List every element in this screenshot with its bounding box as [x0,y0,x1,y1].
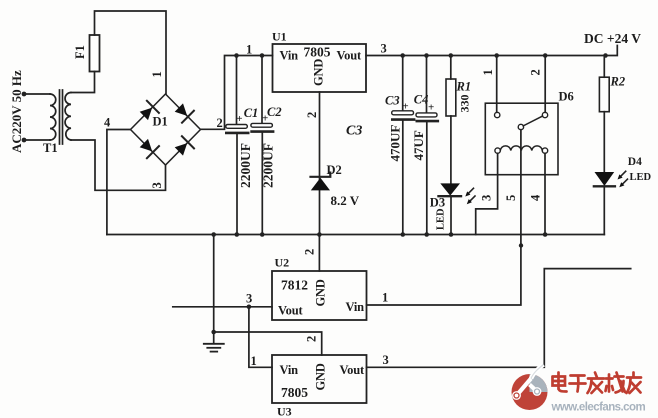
fuse F1 [90,35,100,72]
bridge diode bottom-right [175,143,188,156]
svg-text:470UF: 470UF [388,125,403,162]
wire relay pin 2 [544,56,546,113]
svg-text:D4: D4 [628,156,642,168]
svg-text:3: 3 [381,42,387,56]
svg-text:D3: D3 [430,196,445,210]
svg-text:GND: GND [314,363,328,390]
svg-text:LED: LED [436,208,447,230]
LED D3 arrows [468,188,473,193]
svg-text:2: 2 [305,336,319,342]
resistor R2 [603,56,605,78]
capacitor C2 [261,56,263,124]
svg-text:1: 1 [481,69,495,75]
svg-text:47UF: 47UF [411,130,426,160]
relay switch common contact [518,124,523,129]
wire relay pin 4 to rail [544,153,546,234]
wire bridge node 4 down to bottom rail [107,130,131,235]
svg-text:Vout: Vout [340,363,365,377]
svg-text:3: 3 [246,292,252,306]
svg-text:D1: D1 [153,115,168,129]
svg-text:F1: F1 [73,45,87,59]
svg-text:2: 2 [303,249,317,255]
svg-text:2200UF: 2200UF [238,143,253,188]
svg-text:U2: U2 [275,256,290,270]
LED D4 arrows [621,171,626,176]
wire AC bottom to primary [24,139,50,141]
node dot relay 2 [543,53,548,58]
relay coil terminals [495,148,500,153]
svg-text:DC +24 V: DC +24 V [584,31,641,46]
svg-text:D2: D2 [327,163,342,177]
wire U2 Vout to U3 Vin [249,307,272,368]
relay D6 box [485,103,558,175]
AC terminal dot bottom [22,138,27,143]
resistor R1 [450,56,452,80]
LED D3 [440,183,460,195]
op-amp U3 7805 regulator box [272,355,367,403]
wire U3 Vout pin 3 [367,269,631,368]
capacitor C4 [426,56,428,113]
wire bottom rail [107,234,604,236]
svg-text:3: 3 [480,195,494,201]
relay switch arm [523,116,542,126]
node dot relay 1 [494,53,499,58]
svg-text:T1: T1 [43,141,58,155]
svg-text:Vout: Vout [337,49,362,63]
AC terminal dot top [22,92,27,97]
wire U1 GND pin 2 down to rail [319,92,321,235]
op-amp U1 7805 regulator box [273,44,367,92]
node dot C2 top [260,53,265,58]
transformer T1 secondary winding [65,93,71,141]
svg-text:GND: GND [314,279,328,306]
svg-text:Vin: Vin [346,300,365,314]
svg-text:3: 3 [383,353,389,367]
svg-text:330: 330 [458,95,472,113]
capacitor C3 [402,56,404,111]
capacitor C1 [236,56,238,125]
watermark text 电子发烧友 [553,373,642,394]
svg-text:4: 4 [104,116,111,130]
svg-text:C3: C3 [385,94,400,108]
wire secondary top to fuse [71,72,95,93]
svg-text:7805: 7805 [281,385,308,400]
relay switch contact right [542,112,547,117]
wire U1 output rail to DC +24V [366,46,617,56]
transformer T1 primary winding [50,94,56,140]
node dot R2 top [603,53,608,58]
wire U2 GND pin 2 to rail [318,235,320,272]
bridge diode top-left [140,108,153,121]
svg-text:1: 1 [251,354,257,368]
svg-text:+: + [402,101,408,113]
svg-text:C2: C2 [267,105,282,119]
svg-text:2: 2 [305,112,319,118]
svg-text:U1: U1 [272,30,287,44]
node dot C1 top [234,53,239,58]
char shao [606,373,626,393]
LED D4 [595,172,615,186]
svg-text:R2: R2 [610,75,626,89]
wire fuse top to bridge node 1 [95,11,167,94]
svg-text:+: + [236,113,242,125]
svg-text:C4: C4 [414,93,429,107]
svg-text:+: + [428,102,434,114]
svg-text:R1: R1 [456,80,472,94]
svg-text:U3: U3 [277,405,292,418]
char zi [570,376,586,392]
op-amp U2 7812 regulator box [272,271,367,320]
bridge rectifier D1 diamond [131,94,201,165]
svg-text:1: 1 [382,291,388,305]
svg-text:LED: LED [630,172,652,183]
wire bridge node 2 up to input rail of U1 [201,56,273,130]
svg-text:1: 1 [150,71,164,77]
wire relay pin 3 to rail [476,153,498,234]
svg-text:1: 1 [246,43,252,57]
svg-text:3: 3 [150,182,164,188]
svg-text:C3: C3 [346,124,362,139]
svg-text:Vin: Vin [280,49,299,63]
transformer T1 core [60,90,63,144]
wire relay pin 1 [496,56,498,113]
svg-text:7812: 7812 [281,278,308,293]
ground branch wire [213,235,215,344]
wire relay pin 5 to U2 Vin [367,130,521,305]
svg-text:2: 2 [529,69,543,75]
bridge diode bottom-left [140,139,153,152]
svg-text:2200UF: 2200UF [261,143,276,188]
svg-text:GND: GND [312,59,326,86]
bridge diode top-right [175,103,188,116]
svg-text:D6: D6 [559,90,574,104]
relay coil [500,146,542,151]
svg-text:8.2 V: 8.2 V [331,193,360,208]
char fa [588,373,605,394]
zener diode D2 [311,178,330,191]
svg-text:2: 2 [217,116,223,130]
node dots on rails [400,53,405,58]
node dot pin5 [519,243,523,247]
svg-text:4: 4 [529,194,543,201]
svg-text:Vin: Vin [280,363,299,377]
node dot U2 Vout branch [247,305,252,310]
wire bridge node 3 to transformer secondary bottom [71,140,166,190]
ground symbol [204,343,224,345]
svg-text:Vout: Vout [278,304,303,318]
wire U2 Vout pin 3 stub [173,306,272,308]
node dot ground junction [211,330,216,335]
wire AC top to primary [24,93,50,95]
svg-text:C1: C1 [244,106,259,120]
relay switch contact left [495,112,500,117]
svg-text:7805: 7805 [304,45,331,60]
char dian [553,373,567,392]
svg-text:5: 5 [504,195,518,201]
watermark logo circle [512,365,548,411]
svg-text:www.elecfans.com: www.elecfans.com [551,402,646,414]
char you [627,373,642,394]
wire U3 GND pin 2 to ground [214,332,322,355]
